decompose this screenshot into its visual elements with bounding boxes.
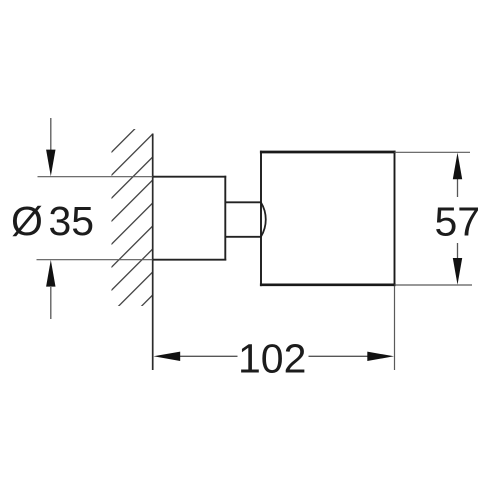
- svg-text:Ø: Ø: [11, 198, 43, 244]
- 57 dimension line upper segment: [457, 179, 459, 197]
- svg-text:35: 35: [49, 198, 95, 244]
- ball joint arc: [261, 202, 266, 237]
- right extension line of 102: [394, 286, 396, 370]
- connector stem: [225, 202, 261, 237]
- arrow down to top extension line: [46, 150, 55, 177]
- wall face line (also left extension line of 102): [152, 134, 154, 371]
- dimension line lower (diameter 35): [50, 287, 52, 319]
- 57 dimension line lower segment: [457, 243, 459, 259]
- arrow left to wall line: [154, 352, 181, 361]
- dimension line upper (diameter 35): [50, 118, 52, 151]
- arrow up to bottom extension line: [46, 260, 55, 287]
- 102 dimension line left segment: [180, 355, 238, 357]
- mount cylinder body: [153, 176, 227, 261]
- extension line top of diameter 35: [38, 176, 153, 178]
- extension line top of 57: [395, 151, 471, 153]
- arrow up to top extension of 57: [453, 153, 462, 180]
- arrow down to bottom extension of 57: [453, 258, 462, 285]
- 102 dimension line right segment: [309, 355, 369, 357]
- wall hatching: [104, 111, 153, 344]
- extension line bottom of 57: [395, 284, 473, 286]
- holder body (large cylinder): [260, 151, 396, 286]
- svg-text:57: 57: [435, 198, 481, 244]
- arrow right to right extension line: [367, 352, 394, 361]
- svg-text:102: 102: [238, 335, 306, 381]
- extension line bottom of diameter 35: [37, 259, 153, 261]
